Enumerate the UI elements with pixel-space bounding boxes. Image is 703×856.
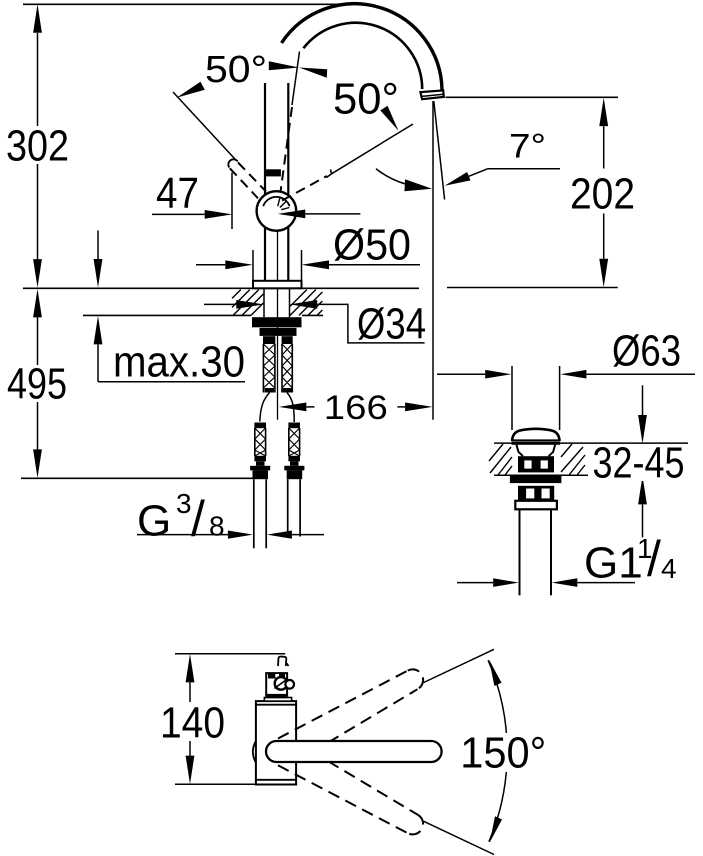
svg-text:Ø50: Ø50: [333, 221, 411, 270]
svg-text:/: /: [647, 531, 661, 587]
svg-text:150°: 150°: [460, 729, 546, 778]
svg-text:/: /: [191, 491, 205, 547]
svg-text:7°: 7°: [509, 128, 546, 166]
svg-text:202: 202: [570, 170, 635, 219]
svg-text:495: 495: [7, 360, 67, 409]
svg-text:max.30: max.30: [113, 338, 245, 387]
svg-text:302: 302: [6, 122, 69, 171]
svg-text:G1: G1: [584, 539, 643, 588]
svg-text:140: 140: [160, 699, 225, 748]
svg-text:50°: 50°: [205, 49, 267, 91]
svg-text:8: 8: [209, 511, 225, 542]
svg-text:Ø63: Ø63: [612, 327, 681, 376]
svg-text:32-45: 32-45: [593, 439, 685, 488]
svg-text:3: 3: [176, 488, 192, 519]
svg-text:50°: 50°: [333, 75, 399, 124]
svg-text:G: G: [137, 497, 171, 546]
svg-text:47: 47: [156, 169, 199, 218]
svg-text:4: 4: [661, 553, 677, 584]
svg-text:Ø34: Ø34: [357, 300, 426, 349]
svg-text:166: 166: [324, 389, 388, 427]
